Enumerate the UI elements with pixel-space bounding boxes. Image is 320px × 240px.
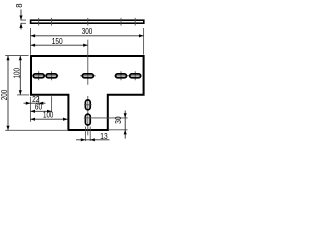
dim line 22	[24, 102, 46, 104]
arrowheads 100 bottom	[30, 118, 67, 121]
arrowheads 100 left	[19, 56, 22, 95]
svg-text:200: 200	[0, 89, 9, 100]
stem slot A	[85, 100, 90, 110]
extension lines for 8 dim	[21, 20, 26, 23]
slot B side extensions down	[85, 127, 90, 141]
slot 4	[116, 74, 127, 78]
stem bottom extension right	[109, 129, 128, 131]
flange slot vertical stubs	[39, 71, 136, 80]
svg-text:300: 300	[82, 27, 93, 36]
arrowheads 30 (outside)	[124, 113, 127, 134]
dim line 100 (flange height)	[19, 56, 21, 95]
dim line 30	[124, 111, 126, 139]
slot centerline ticks over bar	[39, 18, 136, 26]
arrowheads 13 (outside)	[81, 138, 95, 141]
vertical centerline of part	[87, 40, 89, 136]
dim line 8	[20, 10, 22, 30]
arrowheads 22 (outside, pointing inward)	[26, 102, 44, 105]
svg-text:60: 60	[35, 103, 43, 112]
dim line 60	[30, 110, 51, 112]
svg-text:100: 100	[43, 110, 54, 119]
bottom extension line (y=130.9)	[5, 129, 67, 131]
slot 3 (center)	[82, 74, 93, 78]
dim line 13	[76, 139, 110, 141]
edge view bar (plate thickness)	[31, 20, 144, 23]
arrowheads 60	[30, 110, 51, 113]
stem slot A horizontal stub	[84, 104, 92, 106]
arrowheads 200	[6, 56, 9, 131]
slot1 center extension down	[38, 96, 40, 105]
arrowheads 150	[31, 44, 88, 47]
stem slot B	[85, 114, 90, 125]
svg-text:13: 13	[100, 132, 107, 141]
dim line 200	[7, 56, 9, 131]
right extension line between views	[143, 28, 145, 55]
stem slot B horizontal stub / 30-dim extension	[84, 117, 128, 119]
plate outline (T shape)	[31, 56, 144, 130]
flange bottom extension left	[17, 94, 29, 96]
slot 5	[130, 74, 141, 78]
svg-text:8: 8	[15, 3, 24, 7]
top extension line left (y=55.6)	[5, 55, 28, 57]
dim line 300	[31, 35, 144, 37]
left extension line between views	[30, 28, 32, 55]
slot 2	[46, 74, 57, 78]
slot2 center extension down	[51, 96, 53, 112]
svg-text:150: 150	[52, 37, 64, 46]
arrowheads 8 dim	[19, 16, 22, 28]
slot 1	[33, 74, 44, 78]
left edge extension below flange	[29, 97, 31, 122]
dim line 100 (bottom left)	[30, 118, 67, 120]
svg-text:100: 100	[13, 67, 22, 78]
flange slot horizontal centerlines	[32, 75, 141, 77]
arrowheads 300	[31, 34, 144, 37]
svg-text:30: 30	[114, 116, 123, 124]
dim line 150	[31, 44, 88, 46]
